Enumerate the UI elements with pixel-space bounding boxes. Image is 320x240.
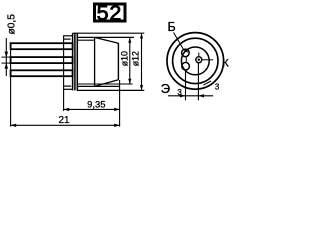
pin К circle (196, 57, 202, 63)
bottom view: outer circle ø12 (167, 33, 224, 90)
dimension line 3-3 (168, 95, 213, 97)
dimension line 9,35 (64, 108, 120, 110)
dimension line ø0,5 (lead diameter) (5, 38, 7, 76)
pin Э circle (182, 62, 190, 70)
svg-text:ø10: ø10 (120, 51, 130, 66)
lead 1 (top lead, side view) (11, 43, 73, 49)
extension line at lead tips down to 21 (10, 42, 12, 126)
pin Б circle (182, 49, 190, 57)
leader from К to pin (202, 59, 213, 61)
extension from pin К down (197, 63, 199, 101)
can weld seam vertical (94, 37, 96, 86)
flange disc lines (72, 33, 74, 90)
extension line lead2 bottom (2, 62, 11, 64)
extension line at can right end down to 21 (119, 80, 121, 127)
svg-text:21: 21 (58, 115, 70, 126)
header tab line bottom (64, 85, 72, 87)
can right end edge (117, 43, 119, 80)
svg-text:3: 3 (177, 88, 181, 97)
extension from pin Э down (185, 70, 187, 100)
svg-text:Б: Б (167, 20, 175, 34)
can rim line top (77, 39, 95, 41)
lead 3 (bottom lead) (11, 70, 73, 76)
svg-text:52: 52 (97, 1, 123, 25)
svg-text:Э: Э (161, 81, 170, 96)
bottom view: circle ø10 (173, 38, 218, 83)
45 degree tick at bottom right of circle (203, 81, 211, 85)
extension line lead2 top (2, 56, 11, 58)
can rim line bottom + o10 bottom extension (77, 83, 132, 85)
extension lines ø12 (73, 32, 145, 34)
dimension line 21 (11, 124, 120, 126)
header tab line top (64, 35, 73, 37)
can cylinder top edge + o10 top extension (77, 36, 134, 38)
lead 2 (middle lead) (11, 57, 73, 63)
dimension line ø10 (129, 37, 131, 84)
extension line for 9,35 (63, 35, 65, 111)
figure number badge 52 (93, 3, 127, 23)
can cylinder bottom edge (77, 85, 119, 87)
pin К dot (198, 59, 200, 61)
center dash between pins (185, 57, 187, 61)
svg-text:3: 3 (215, 82, 219, 91)
center dash above pin K (198, 53, 200, 57)
can cone bottom slant (95, 80, 118, 86)
bottom view: pin circle (181, 47, 209, 75)
svg-text:9,35: 9,35 (87, 99, 105, 110)
leader from Б to pin (174, 32, 189, 52)
svg-text:ø12: ø12 (130, 51, 140, 66)
dimension line ø12 (141, 33, 143, 90)
svg-text:К: К (222, 57, 229, 69)
svg-text:ø0,5: ø0,5 (6, 14, 17, 35)
can cone top slant (95, 38, 118, 44)
